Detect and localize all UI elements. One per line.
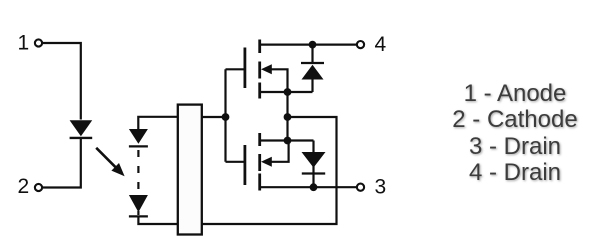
node Q2 source junction — [284, 137, 292, 145]
legend pin description text — [400, 81, 600, 187]
body diode D4 of Q2 — [302, 141, 326, 188]
photodiode PD1 — [129, 129, 148, 146]
transistor Q2 gate bar — [243, 145, 246, 185]
common source vertical wire — [286, 92, 288, 141]
transistor Q2 channel segments — [258, 133, 261, 191]
svg-text:2: 2 — [18, 175, 30, 198]
node gate bus junction — [222, 113, 230, 121]
light emission arrow — [96, 148, 124, 176]
wire LED cathode to pin2 — [43, 139, 81, 188]
transistor Q1 source lead — [260, 91, 313, 93]
dashed photodiode link — [137, 150, 139, 192]
wire photodiode bottom to driver bottom rail — [138, 218, 177, 225]
wire photodiode top to driver input — [138, 117, 178, 130]
pin 4 terminal circle — [357, 41, 364, 48]
pin 3 label — [375, 176, 387, 199]
svg-text:4: 4 — [375, 33, 387, 56]
pin 4 label — [375, 33, 387, 56]
node Q1 source junction — [284, 88, 292, 96]
transistor Q1 channel segments — [258, 40, 261, 99]
transistor Q1 drain lead / pin4 line — [260, 43, 357, 45]
node D3 cathode on pin4 line — [309, 41, 317, 49]
transistor Q1 body arrow — [261, 64, 288, 92]
transistor Q2 body arrow — [261, 141, 289, 167]
pin 1 terminal circle — [35, 39, 42, 46]
wire gate lead Q2 — [226, 161, 244, 163]
transistor Q2 drain lead / pin3 line — [260, 186, 357, 188]
gate bus wire — [224, 69, 226, 162]
pin 3 terminal circle — [357, 184, 364, 191]
wire pin1 to LED anode — [43, 43, 81, 120]
LED D1 — [70, 120, 93, 138]
transistor Q2 source lead — [260, 139, 314, 141]
transistor Q1 gate bar — [243, 48, 246, 89]
wire gate lead Q1 — [226, 68, 244, 70]
pin 2 label — [18, 175, 30, 198]
source return wire to driver bottom — [202, 117, 337, 224]
pin 2 terminal circle — [35, 184, 42, 191]
body diode D3 of Q1 — [301, 45, 324, 92]
photodiode PD2 — [129, 195, 148, 216]
driver circuit block U1 — [178, 105, 202, 235]
node source-return junction — [284, 113, 292, 121]
wire driver output to gate bus — [202, 116, 226, 118]
pin 1 label — [18, 32, 30, 55]
svg-text:3: 3 — [375, 176, 387, 199]
node D4 anode on pin3 line — [310, 183, 318, 191]
svg-text:1: 1 — [18, 32, 30, 55]
